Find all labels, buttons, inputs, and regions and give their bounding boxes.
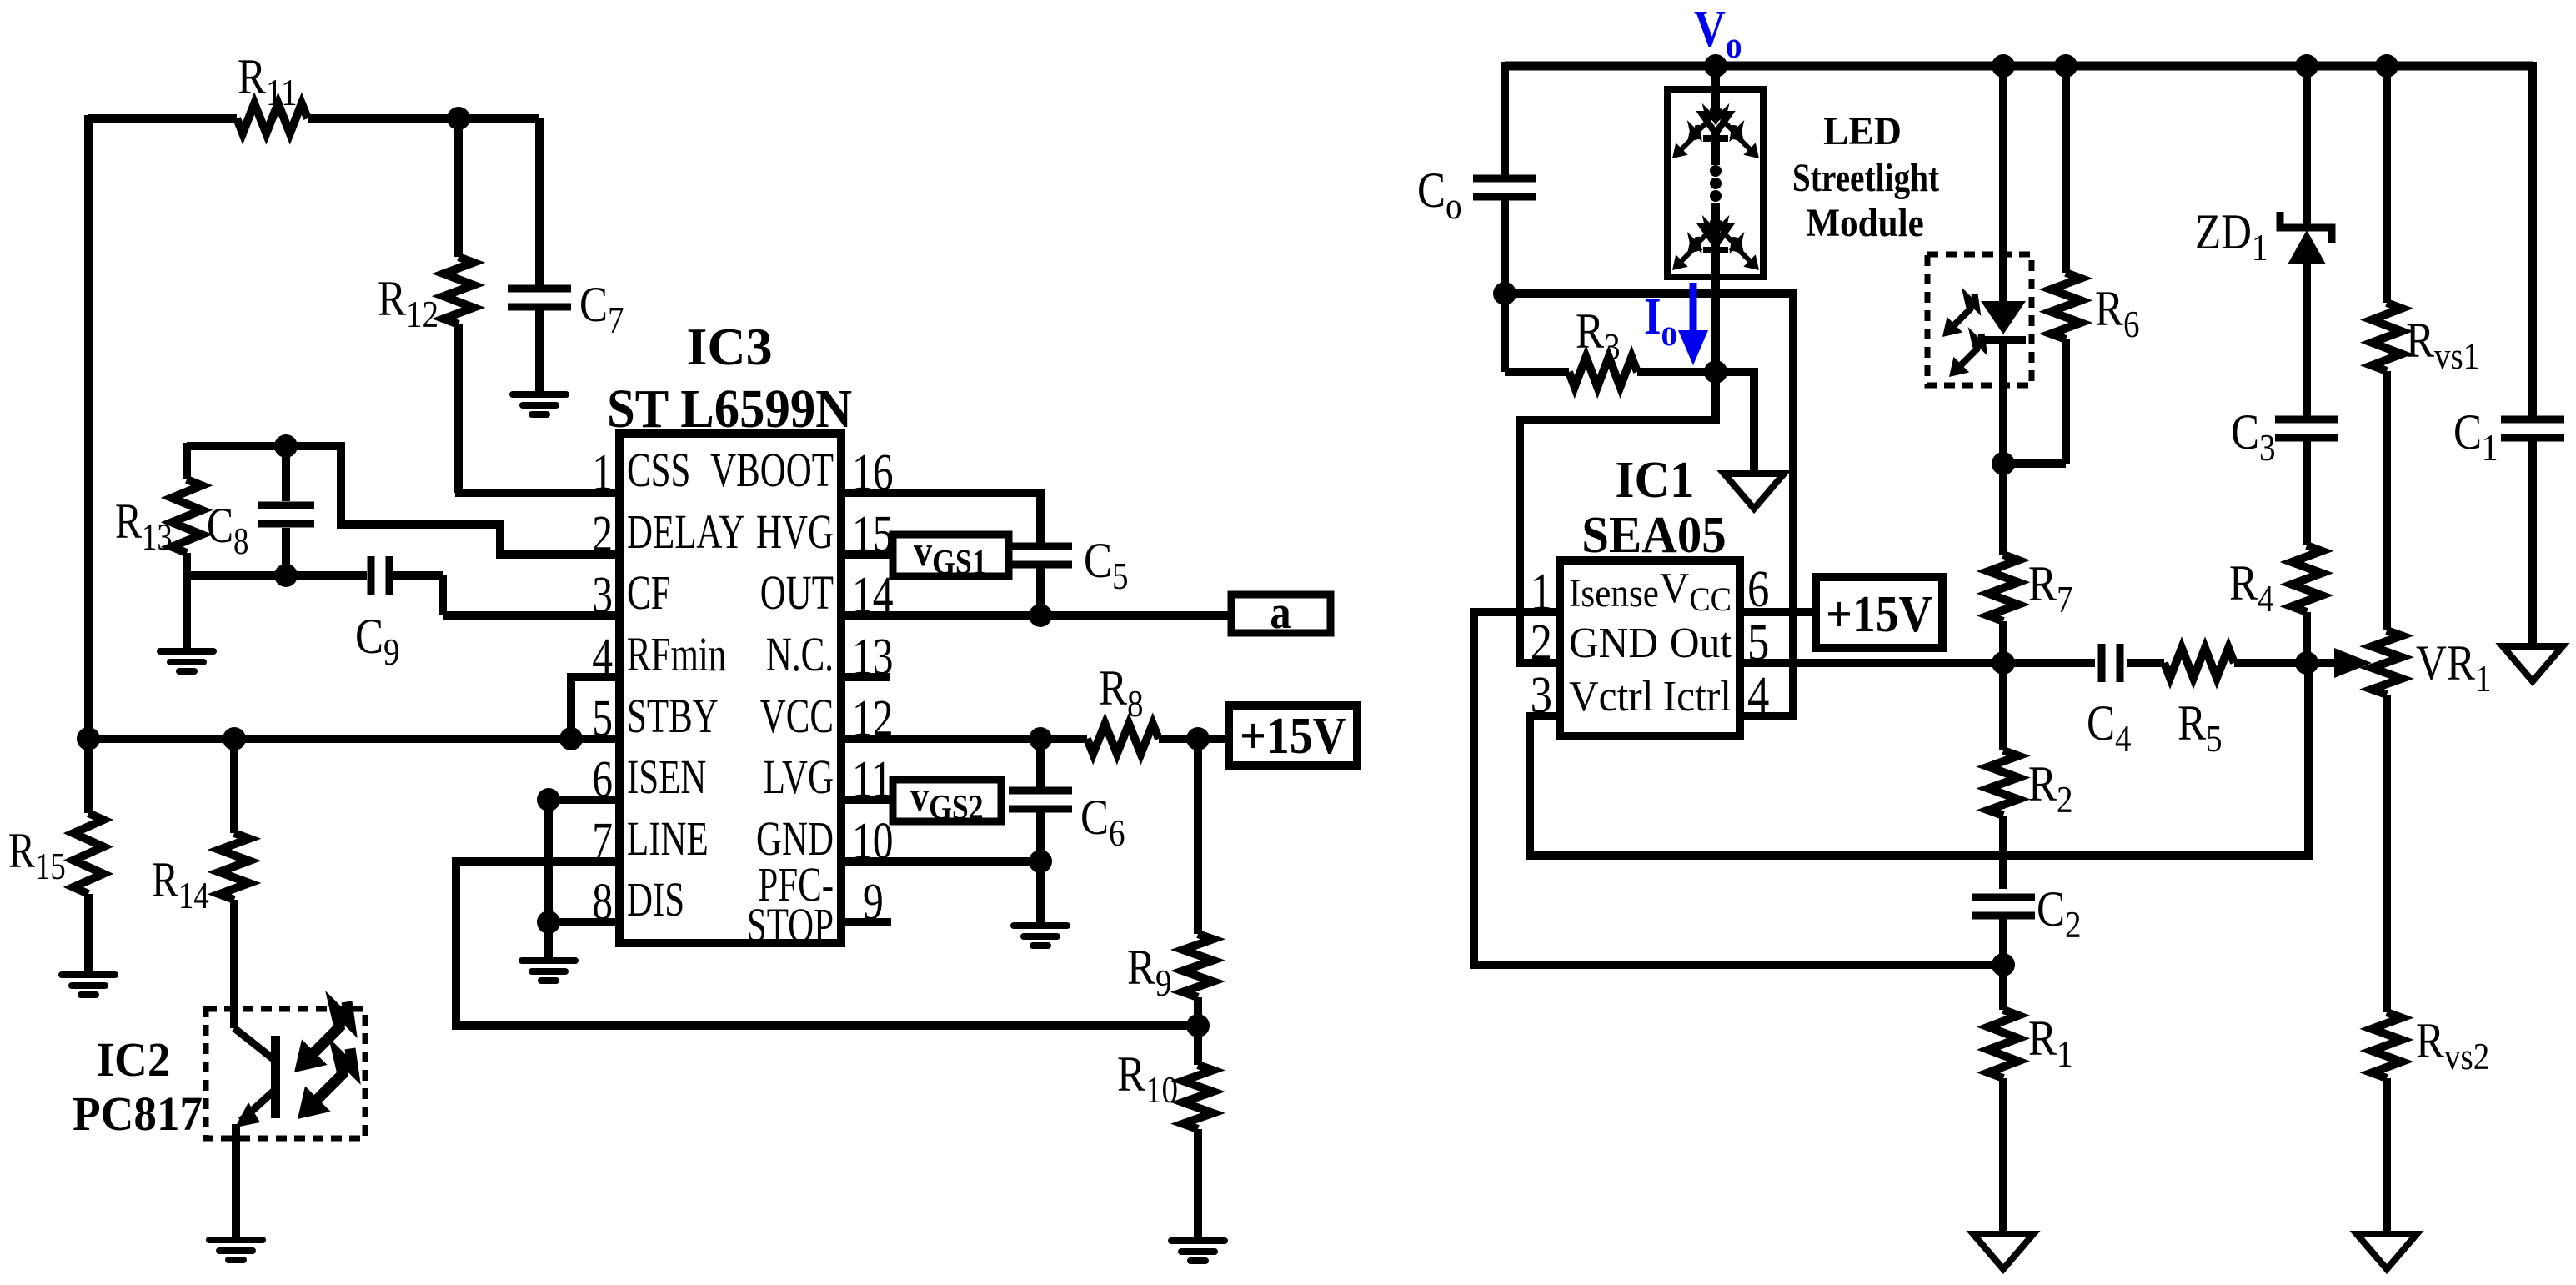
wire top-left rail [88,114,237,123]
svg-text:Out: Out [1670,619,1732,666]
wire R3 right lead [1637,368,1716,376]
ground under R13 [157,648,217,675]
potentiometer VR1 [2372,630,2402,695]
wire rail Co node to Ictrl [1505,294,1793,716]
opto LED diode [1981,301,2026,334]
resistor R7 [1988,555,2018,621]
wire R12 top lead [454,118,463,257]
svg-text:Streetlight: Streetlight [1792,156,1940,199]
output return terminal triangle [1724,474,1784,509]
wire R9 to node [1194,997,1202,1026]
resistor R8 [1087,724,1159,754]
wire pin12 VCC to R8 [841,735,1087,743]
label box VGS1 [893,535,1009,576]
wire R2 top lead [1999,663,2007,750]
svg-text:OUT: OUT [760,567,834,620]
svg-text:GND: GND [1569,619,1658,666]
node bus/opto branch [1992,54,2015,78]
wire C7 branch [535,118,544,289]
resistor Rvs2 [2372,1012,2402,1078]
wire C2 bottom lead [1999,916,2007,965]
svg-text:CF: CF [627,567,670,620]
wire R2 to C2 [1999,816,2007,889]
node C6 top [1029,727,1052,750]
wire pin5 Out to C4 [1740,659,2095,667]
svg-text:LINE: LINE [627,813,709,866]
wire R10 to ground [1194,1129,1202,1241]
svg-text:IC1: IC1 [1616,452,1695,509]
node C8 top [274,434,298,458]
node R9/R10/LINE [1186,1014,1210,1037]
capacitor C4 [2098,644,2106,682]
wire pin9 PFC-STOP stub [841,918,891,926]
wire pin6 ISEN [549,796,619,804]
capacitor C3 [2275,416,2338,424]
capacitor C5 [1009,543,1072,550]
wire C1 to ground [2528,438,2537,646]
ground under R10 [1168,1237,1228,1264]
opto LED light arrows [1942,317,1962,337]
wire pin16 VBOOT to C5 [841,493,1040,543]
wire C9 to pin3 CF [393,571,443,580]
wire module bottom lead [1711,203,1720,372]
resistor Rvs1 [2372,303,2402,371]
node Vo [1704,54,1727,78]
wire C8 top lead [282,446,290,501]
wire ZD1 branch top [2303,66,2311,228]
wire R12 bottom to pin1 CSS [454,324,463,493]
svg-text:Ictrl: Ictrl [1663,672,1732,720]
wire top output bus Vo [1505,62,2533,71]
wire Co node down to R3 [1501,294,1509,372]
svg-text:STOP: STOP [747,900,834,953]
wire Io node to output terminal [1716,372,1754,474]
wire Co branch top [1501,62,1509,178]
wire R1 to ground [1999,1078,2007,1234]
svg-text:IC3: IC3 [686,317,772,376]
IC2 light arrows [294,1039,328,1072]
wire R15 to ground [84,894,93,975]
svg-text:DIS: DIS [627,874,684,927]
node opto/R6 [1992,452,2015,475]
svg-text:ST L6599N: ST L6599N [607,378,852,439]
zener diode ZD1 [2280,212,2332,243]
wire Co bottom [1501,197,1509,294]
opto LED dashed box [1927,254,2032,385]
wire R10 top lead [1194,1026,1202,1065]
resistor R12 [444,257,474,324]
wire R1 top lead [1999,965,2007,1010]
wire ISEN-DIS vertical [544,800,553,922]
node Co bottom [1493,282,1516,305]
capacitor Co [1473,175,1536,183]
wire R5 to VR1 node [2234,659,2307,667]
wire pin11 LVG stub [841,796,893,804]
wire Io node to IC1 GND pin2 [1520,372,1716,663]
node pin4/pin5 junction [559,727,583,750]
resistor R5 [2164,648,2234,678]
wire C3 to R4 [2303,438,2311,545]
node left rail/STBY [77,727,100,750]
IC2 phototransistor [234,1028,273,1059]
capacitor C8 [258,502,314,509]
svg-text:3: 3 [1531,667,1552,724]
wire C7 to ground [535,307,544,394]
wire bottom rail R13-C9 [187,571,367,580]
resistor R2 [1988,750,2018,816]
svg-text:Module: Module [1806,200,1924,245]
wire R7 to Out node [1999,621,2007,663]
resistor R11 [237,103,308,133]
VR1 wiper arrow [2307,659,2340,667]
node C2/R1/Isense [1992,953,2015,976]
label box VGS2 [893,780,1001,821]
ground under C1 [2503,646,2563,681]
wire opto LED to R6 node [1999,339,2007,464]
svg-text:LED: LED [1823,109,1902,153]
resistor R13 [183,443,191,479]
node R14 top [223,727,246,750]
wire pin8 to ground [544,922,553,961]
ellipsis dots in module [1710,165,1722,177]
svg-text:VCC: VCC [760,690,834,744]
ground under IC2 [206,1237,266,1263]
wire pin5 STBY rail [88,735,619,743]
svg-text:1: 1 [1531,564,1552,620]
wire pin14 OUT to node a [841,611,1231,620]
wire C6 top lead [1036,739,1045,791]
ground under C7 [509,391,569,418]
node R4/R5/VR1 wiper [2295,651,2318,675]
wire pin6 Vcc to +15V [1740,608,1816,616]
wire Rvs1 branch top [2383,66,2391,303]
node a terminal box [1231,595,1331,633]
capacitor C1 [2501,416,2564,424]
wire IC1 pin1 Isense loop [1474,612,2003,965]
resistor R14 [230,739,238,833]
wire C6 bottom lead [1036,809,1045,861]
svg-text:DELAY: DELAY [627,506,744,560]
node bus/R6 branch [2054,54,2077,78]
wire IC2 emitter to ground [232,1124,240,1240]
resistor R6 [2051,273,2081,339]
wire R6 bottom [2062,339,2070,464]
wire pin7 LINE to R9/R10 node [456,861,1198,1026]
svg-text:PC817: PC817 [73,1088,203,1142]
wire C8 top rail [187,442,341,450]
wire ZD1 to C3 [2303,261,2311,419]
terminal box +15V [1229,705,1357,765]
LED D2 light arrows [1672,254,1688,270]
capacitor C6 [1009,787,1072,795]
wire R8 to +15V [1159,735,1229,743]
svg-text:2: 2 [592,506,613,563]
svg-text:STBY: STBY [627,690,719,744]
resistor R15 [84,739,93,813]
LED D1 in module [1702,114,1729,133]
LED streetlight module box [1667,89,1763,277]
wire pin15 HVG stub [841,550,893,559]
wire VR1 to Rvs2 [2383,695,2391,1012]
node bus/Rvs1 branch [2375,54,2398,78]
svg-text:VBOOT: VBOOT [710,444,834,498]
wire C8 bottom lead [282,528,290,575]
wire R7 top lead [1999,464,2007,555]
wire C6 to ground [1036,861,1045,926]
wire R9 branch [1194,739,1202,934]
svg-text:+15V: +15V [1826,585,1932,642]
capacitor C9 [368,556,375,595]
svg-text:Isense: Isense [1569,570,1659,615]
node C5/OUT [1029,604,1052,627]
svg-text:4: 4 [1747,667,1769,724]
resistor R4 [2292,545,2322,612]
node Out/R7/R2 [1992,651,2015,675]
node pin6 [537,788,560,811]
node bus/ZD1 branch [2295,54,2318,78]
resistor R10 [1183,1065,1213,1129]
wire C4 to R5 [2127,659,2164,667]
node +15V/R9 [1186,727,1210,750]
wire Rvs2 to ground [2383,1078,2391,1234]
wire C5 bottom [1036,568,1045,615]
svg-text:1: 1 [592,444,613,501]
wire pin8 DIS stub [549,918,619,926]
IC2 optocoupler dashed box [206,1009,365,1138]
node pin8 [537,911,560,934]
terminal box +15V right [1816,577,1942,648]
svg-text:SEA05: SEA05 [1581,507,1726,565]
wire pin10 GND [841,857,1040,866]
wire left vertical rail [84,115,93,742]
node junction R11/R12 [447,107,470,130]
LED D1 light arrows [1672,143,1688,158]
wire pin4 RFmin to pin5 rail [571,677,619,739]
wire IC1 pin3 Vctrl loop [1530,663,2308,856]
resistor R1 [1988,1010,2018,1078]
svg-text:HVG: HVG [756,506,834,560]
wire R13 to ground [183,553,191,651]
wire opto branch from bus [1999,66,2007,301]
svg-text:+15V: +15V [1240,706,1346,764]
resistor R9 [1183,934,1213,997]
current arrow Io [1690,283,1697,334]
IC1 body box [1560,560,1740,736]
svg-text:LVG: LVG [764,751,834,805]
svg-text:ISEN: ISEN [627,751,706,805]
wire C1 branch top [2528,62,2537,419]
ground under R1 [1973,1234,2033,1269]
capacitor C2 [1972,894,2035,901]
node Io junction [1704,360,1727,384]
ground under R15 [58,971,118,998]
wire R6 branch [2062,66,2070,273]
svg-text:CSS: CSS [627,444,690,498]
node C8 bottom [274,564,298,587]
LED D2 in module [1702,226,1729,245]
IC3 body box [619,434,841,943]
svg-text:2: 2 [1531,615,1552,671]
svg-text:a: a [1270,587,1291,639]
ground under pin8 [519,957,579,984]
wire pin13 N.C. stub [841,673,890,681]
ground under Rvs2 [2357,1234,2417,1269]
svg-text:N.C.: N.C. [766,629,834,682]
svg-text:IC2: IC2 [97,1034,171,1087]
svg-text:RFmin: RFmin [627,629,726,682]
ground under C6 [1010,922,1070,949]
capacitor C7 [508,285,571,293]
resistor R3 [1569,357,1637,387]
wire R14 to IC2 collector [230,900,238,1028]
wire C8 node to pin2 DELAY [286,446,619,555]
node C6/GND pin10 [1029,850,1052,873]
wire Rvs1 to VR1 [2383,371,2391,630]
svg-text:3: 3 [592,567,613,624]
wire module top lead [1711,66,1720,165]
svg-text:Vctrl: Vctrl [1569,672,1653,720]
wire R4 to node [2303,612,2311,663]
wire R3 left lead [1505,368,1569,376]
